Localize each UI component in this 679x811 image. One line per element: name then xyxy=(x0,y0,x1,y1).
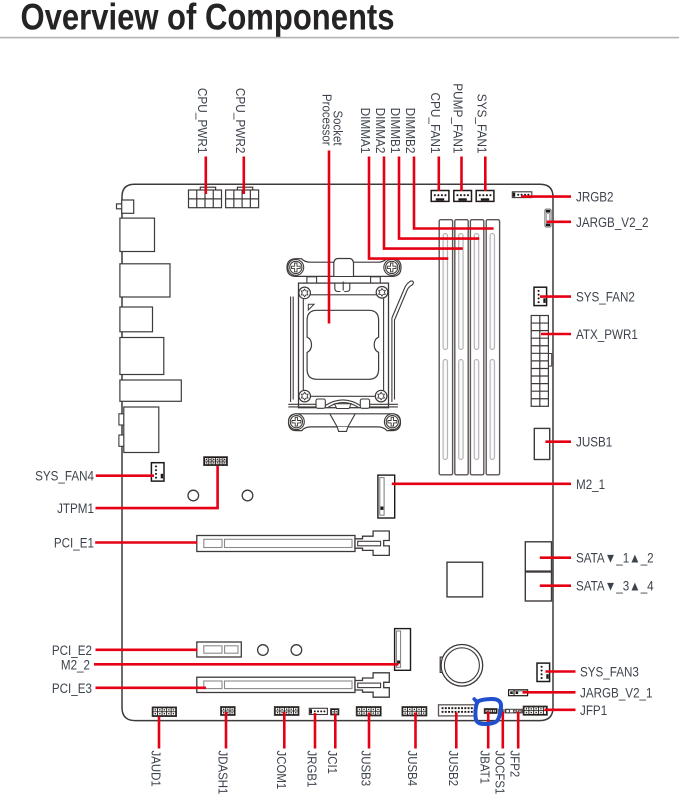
PCIe slot PCI_E3 xyxy=(197,677,355,692)
callout line SYS_FAN2 xyxy=(540,295,571,298)
svg-text:JOCFS1: JOCFS1 xyxy=(492,751,507,795)
connector JAUD1 xyxy=(152,707,177,717)
rear IO small plug xyxy=(117,200,134,213)
connector CPU_PWR1 xyxy=(189,187,222,208)
callout line JRGB1 xyxy=(314,713,317,749)
callout line JFP1 xyxy=(545,708,576,711)
callout line JAUD1 xyxy=(158,717,161,749)
socket load lever xyxy=(392,281,414,320)
connector SATA_1_2 xyxy=(525,542,551,571)
svg-text:PCI_E1: PCI_E1 xyxy=(54,536,94,551)
callout line SATA_1_2 xyxy=(540,556,571,559)
rear IO block A xyxy=(120,218,155,251)
mounting hole hole4 xyxy=(291,645,302,656)
connector PUMP_FAN1 xyxy=(454,191,472,202)
PCI_E3 retention latch xyxy=(355,673,389,697)
svg-text:PCI_E2: PCI_E2 xyxy=(52,643,92,658)
svg-text:DIMMB2: DIMMB2 xyxy=(403,108,418,154)
callout line JTPM1 xyxy=(96,466,218,508)
callout line CPU_PWR2 xyxy=(243,157,246,195)
callout line JDASH1 xyxy=(225,712,228,749)
callout line DIMMA2 xyxy=(384,157,463,249)
svg-text:Socket: Socket xyxy=(330,111,345,147)
svg-text:CPU_PWR1: CPU_PWR1 xyxy=(195,88,210,154)
svg-text:Overview of Components: Overview of Components xyxy=(21,0,395,38)
callout line PUMP_FAN1 xyxy=(460,157,463,192)
torx screw xyxy=(376,287,388,299)
svg-text:SATA▼_1▲_2: SATA▼_1▲_2 xyxy=(576,551,654,566)
connector SYS_FAN1 xyxy=(476,191,494,202)
PCIe slot PCI_E2 xyxy=(197,642,242,657)
svg-text:JUSB4: JUSB4 xyxy=(405,751,420,787)
pin1 triangle xyxy=(308,304,314,310)
callout line JFP2 xyxy=(517,712,520,749)
svg-text:SYS_FAN1: SYS_FAN1 xyxy=(474,94,489,154)
connector JOCFS1 xyxy=(499,709,504,713)
M.2 slot M2_1 xyxy=(378,475,395,518)
rear IO block B xyxy=(120,264,170,297)
callout line DIMMB2 xyxy=(414,157,494,229)
socket spring feet xyxy=(316,399,325,408)
CPU keep-out area xyxy=(307,310,379,379)
svg-text:JBAT1: JBAT1 xyxy=(478,751,493,785)
rear IO block C xyxy=(120,307,153,332)
rear IO block F (audio) xyxy=(119,407,159,453)
phillips screw bottom xyxy=(289,414,305,430)
callout line Processor Socket xyxy=(328,151,331,324)
bar-to-frame ears top xyxy=(307,277,317,283)
svg-text:M2_1: M2_1 xyxy=(576,477,605,492)
motherboard outline xyxy=(122,184,553,720)
CPU socket retention bar top xyxy=(287,259,401,277)
connector JARGB_V2_2 xyxy=(545,209,551,227)
callout line SATA_3_4 xyxy=(540,584,571,587)
connector ATX_PWR1 xyxy=(531,316,552,407)
phillips screw xyxy=(384,260,400,276)
callout line JCI1 xyxy=(334,714,337,749)
connector JUSB2 xyxy=(439,705,476,716)
svg-text:JDASH1: JDASH1 xyxy=(215,751,230,795)
DIMM slot DIMMA2 xyxy=(455,220,468,475)
svg-text:CPU_PWR2: CPU_PWR2 xyxy=(233,88,248,154)
DIMM slot DIMMA1 xyxy=(439,220,452,475)
connector JARGB_V2_1 xyxy=(509,690,528,696)
svg-text:JRGB1: JRGB1 xyxy=(304,751,319,788)
callout line PCI_E3 xyxy=(96,686,207,689)
svg-text:DIMMA2: DIMMA2 xyxy=(373,108,388,154)
svg-text:SYS_FAN4: SYS_FAN4 xyxy=(35,469,94,484)
CPU socket frame xyxy=(299,283,389,408)
connector SYS_FAN3 xyxy=(537,663,550,681)
callout line JBAT1 xyxy=(487,712,490,749)
svg-text:DIMMA1: DIMMA1 xyxy=(358,108,373,154)
connector JCI1 xyxy=(331,709,339,715)
svg-text:DIMMB1: DIMMB1 xyxy=(388,108,403,154)
callout line PCI_E1 xyxy=(95,541,197,544)
svg-text:JARGB_V2_1: JARGB_V2_1 xyxy=(580,686,653,701)
svg-text:SYS_FAN2: SYS_FAN2 xyxy=(576,290,635,305)
DIMM slot DIMMB2 xyxy=(486,220,499,475)
svg-text:JFP2: JFP2 xyxy=(508,751,523,778)
connector CPU_PWR2 xyxy=(226,187,259,208)
callout line JUSB4 xyxy=(414,713,417,749)
callout line M2_2 xyxy=(94,663,399,666)
callout line JARGB_V2_1 xyxy=(523,691,576,694)
svg-text:JTPM1: JTPM1 xyxy=(57,501,94,516)
callout line CPU_FAN1 xyxy=(437,157,440,192)
callout line JARGB_V2_2 xyxy=(547,221,572,224)
chipset xyxy=(447,562,483,597)
PCIe slot PCI_E1 xyxy=(197,536,355,552)
DIMM slot DIMMB1 xyxy=(470,220,483,475)
svg-text:JRGB2: JRGB2 xyxy=(576,190,614,205)
CPU socket retention bar bottom xyxy=(289,414,401,432)
svg-text:JARGB_V2_2: JARGB_V2_2 xyxy=(576,215,649,230)
svg-text:JCI1: JCI1 xyxy=(325,751,340,775)
callout line ATX_PWR1 xyxy=(541,333,571,336)
callout line SYS_FAN3 xyxy=(546,670,576,673)
callout line JOCFS1 xyxy=(501,712,504,749)
connector SATA_3_4 xyxy=(525,572,551,601)
svg-text:JUSB1: JUSB1 xyxy=(576,435,612,450)
connector JCOM1 xyxy=(274,707,299,716)
torx screw xyxy=(375,390,387,402)
title underline rule xyxy=(0,37,679,39)
mounting hole hole3 xyxy=(258,645,269,656)
socket spring wire left/bottom xyxy=(288,297,398,408)
M.2 slot M2_2 xyxy=(395,629,411,671)
connector JTPM1 xyxy=(204,457,228,466)
connector JFP1 xyxy=(523,706,547,715)
callout line DIMMA1 xyxy=(369,157,448,259)
svg-text:CPU_FAN1: CPU_FAN1 xyxy=(428,92,443,153)
connector JRGB2 xyxy=(512,192,532,198)
socket latch hooks top xyxy=(335,282,350,292)
rear IO block E xyxy=(120,380,181,401)
svg-text:SATA▼_3▲_4: SATA▼_3▲_4 xyxy=(576,579,654,594)
connector CPU_FAN1 xyxy=(431,191,449,202)
svg-text:JAUD1: JAUD1 xyxy=(148,751,163,787)
svg-text:M2_2: M2_2 xyxy=(61,658,90,673)
callout line SYS_FAN4 xyxy=(96,474,154,477)
connector JDASH1 xyxy=(221,707,236,716)
callout line PCI_E2 xyxy=(96,648,198,651)
highlight circle JBAT1 xyxy=(475,699,501,724)
callout line DIMMB1 xyxy=(399,157,479,239)
mounting hole hole2 xyxy=(242,490,253,501)
svg-text:JUSB2: JUSB2 xyxy=(446,751,461,787)
connector JUSB3 xyxy=(356,707,381,717)
phillips screw xyxy=(288,260,304,276)
connector JRGB1 xyxy=(309,708,327,714)
PCI_E1 retention latch xyxy=(355,531,389,555)
svg-text:JUSB3: JUSB3 xyxy=(358,751,373,787)
connector JBAT1 xyxy=(484,709,497,714)
phillips screw bottom xyxy=(384,414,400,430)
battery xyxy=(440,645,483,687)
torx screw xyxy=(299,390,311,402)
callout line CPU_PWR1 xyxy=(205,157,208,195)
callout line JUSB1 xyxy=(545,440,571,443)
mounting hole hole1 xyxy=(188,490,199,501)
rear IO block D xyxy=(120,338,164,375)
connector JUSB1 xyxy=(534,428,549,459)
callout line JUSB2 xyxy=(455,713,458,749)
svg-text:PCI_E3: PCI_E3 xyxy=(52,681,92,696)
connector JFP2 xyxy=(505,709,522,713)
svg-text:JFP1: JFP1 xyxy=(580,703,607,718)
callout line JUSB3 xyxy=(368,713,371,749)
torx screw xyxy=(299,287,311,299)
svg-text:JCOM1: JCOM1 xyxy=(274,751,289,790)
svg-text:ATX_PWR1: ATX_PWR1 xyxy=(576,327,638,342)
connector JUSB4 xyxy=(402,707,427,717)
connector SYS_FAN4 xyxy=(151,463,164,481)
callout line JCOM1 xyxy=(283,712,286,749)
callout line JRGB2 xyxy=(521,195,571,198)
callout line M2_1 xyxy=(392,482,571,485)
svg-text:PUMP_FAN1: PUMP_FAN1 xyxy=(450,83,465,153)
svg-text:SYS_FAN3: SYS_FAN3 xyxy=(580,665,639,680)
connector SYS_FAN2 xyxy=(534,287,547,305)
callout line SYS_FAN1 xyxy=(484,157,487,192)
